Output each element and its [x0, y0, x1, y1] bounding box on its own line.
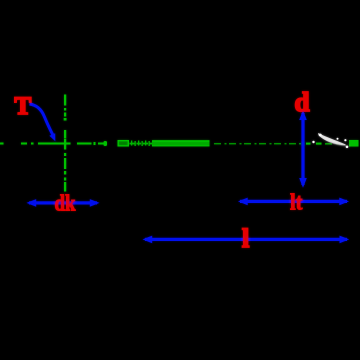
dimension arrow l (blue long double arrow): [143, 236, 350, 244]
dimension arrow dk (blue double arrow): [27, 199, 100, 207]
dimension arrow d (blue vertical double arrow): [299, 110, 307, 187]
axis thick segment B: [152, 140, 210, 146]
horizontal axis (green dash-dot center line): [0, 141, 107, 146]
axis end block (right): [349, 140, 359, 147]
axis dim right section (dash-dot): [214, 143, 301, 144]
dimension arrow lt (blue double arrow): [238, 198, 349, 206]
vertical axis (green dash-dot): [64, 95, 67, 192]
axis bright dashes right of blue arrow: [306, 143, 322, 145]
white highlight swoosh: [312, 134, 348, 149]
axis thick segment A: [118, 140, 130, 147]
curved leader arrow from T to axis crossing: [30, 104, 56, 141]
axis textured segment (ticks): [130, 141, 153, 147]
